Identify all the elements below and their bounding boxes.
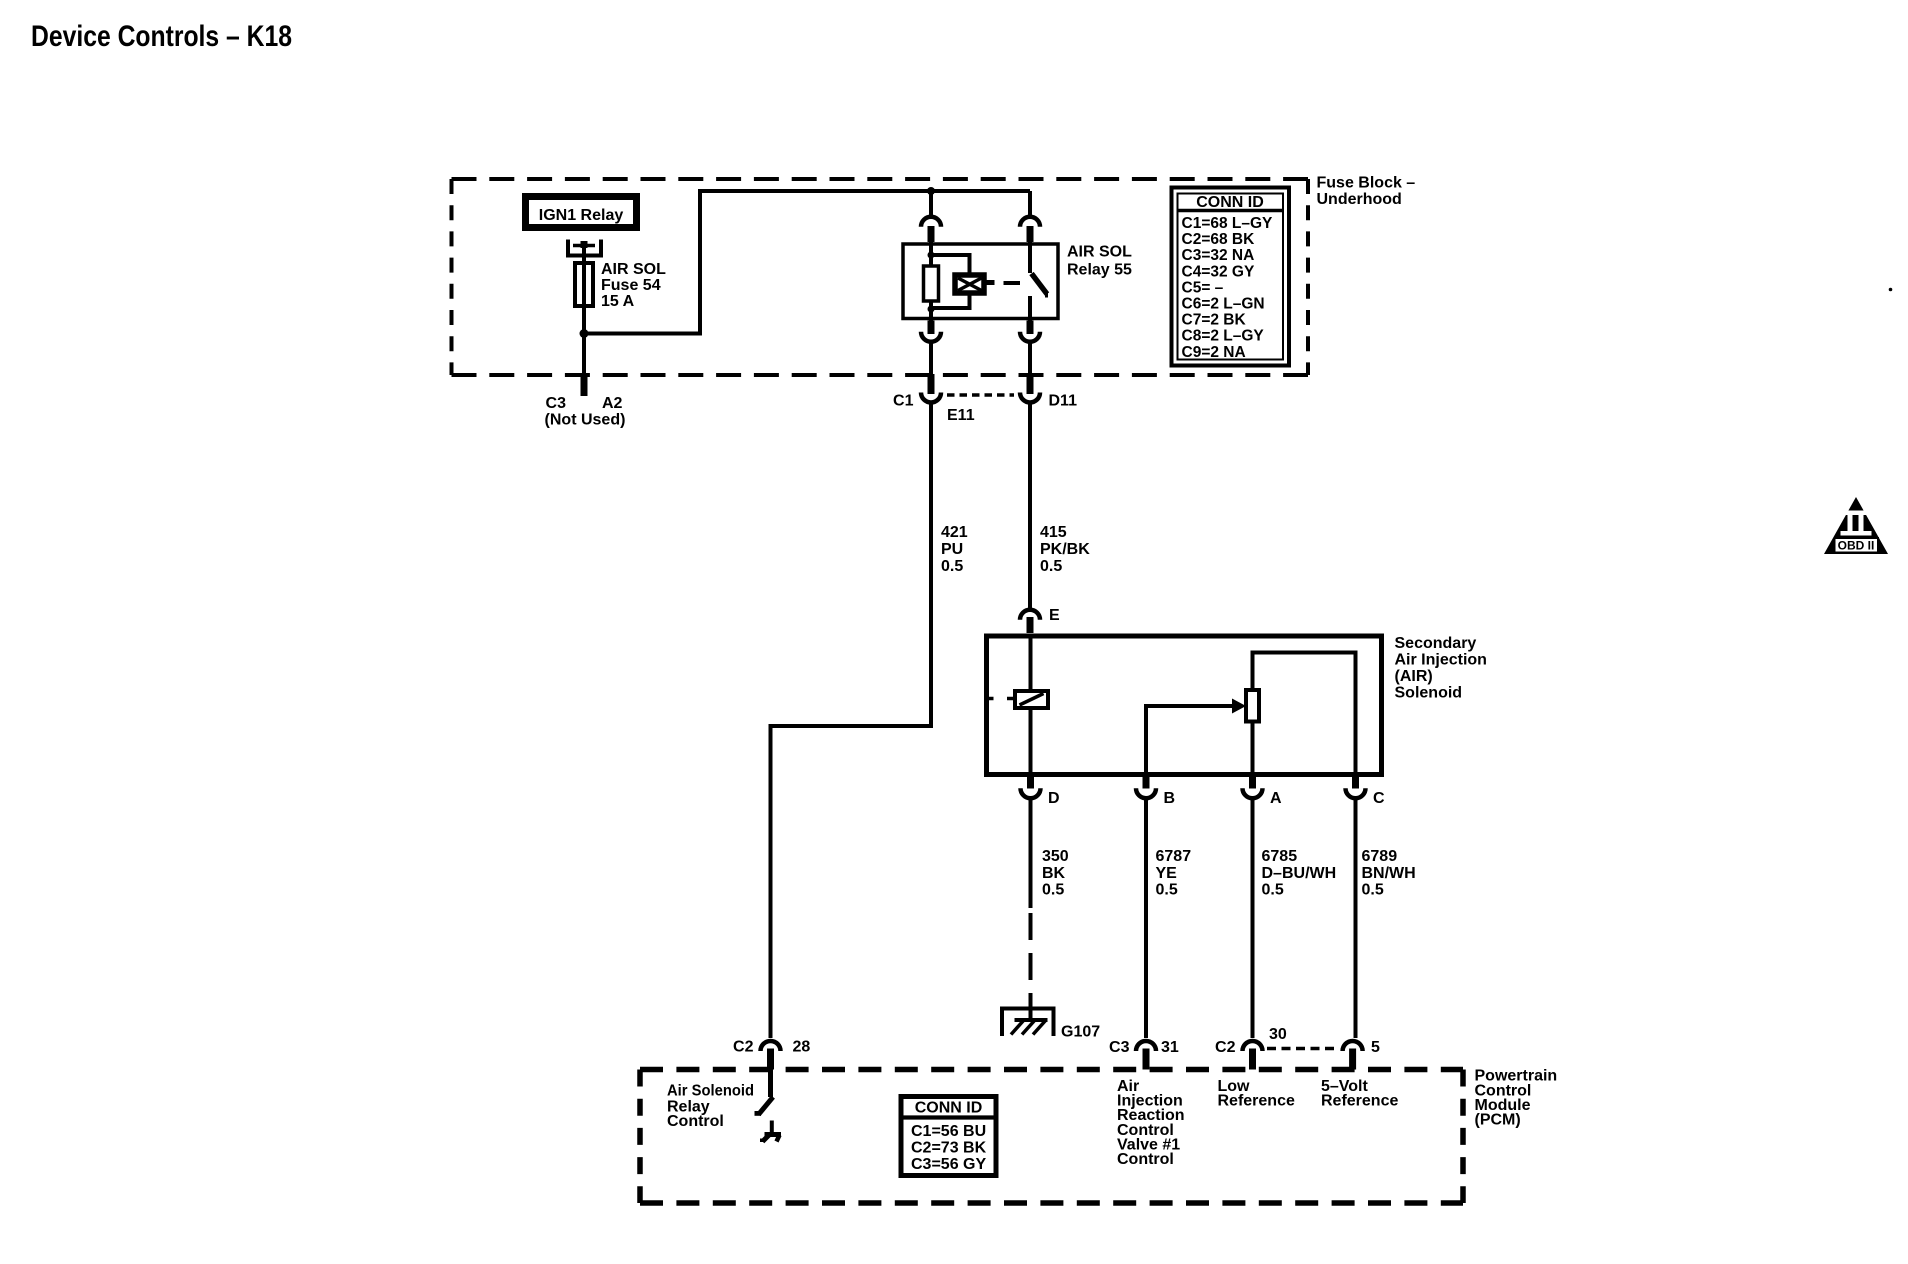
svg-text:Fuse Block –: Fuse Block – [1317,175,1416,192]
label: C2 (pin 28) [733,1039,754,1056]
svg-text:0.5: 0.5 [1362,882,1384,899]
actuator dashed link [1004,281,1021,285]
wire: sensor bottom to pin A [1251,722,1255,778]
relay switch blade [1032,274,1048,298]
svg-text:C7=2 BK: C7=2 BK [1182,312,1247,329]
svg-text:421: 421 [941,524,968,541]
label: E [1049,607,1060,624]
svg-text:A: A [1270,790,1282,807]
svg-text:Reference: Reference [1321,1093,1398,1110]
label: A2 [602,395,623,412]
svg-text:6787: 6787 [1156,848,1192,865]
label: Powertrain Control Module (PCM) [1475,1068,1558,1129]
svg-text:5: 5 [1371,1039,1380,1056]
wire stub into ground [1029,1007,1033,1020]
svg-text:Secondary: Secondary [1395,635,1477,652]
svg-text:BN/WH: BN/WH [1362,865,1416,882]
svg-text:Control: Control [667,1113,724,1130]
svg-text:0.5: 0.5 [1042,882,1064,899]
connector arc PCM C3 pin 31 [1136,1041,1156,1051]
svg-text:(Not Used): (Not Used) [545,412,626,429]
svg-text:415: 415 [1040,524,1067,541]
svg-text:AIR SOL: AIR SOL [1067,244,1132,261]
svg-text:D11: D11 [1049,393,1078,410]
svg-text:E11: E11 [947,407,975,424]
male pin PCM 31 [1143,1049,1150,1070]
solenoid valve element [1015,691,1048,708]
label: pin D [1048,790,1060,807]
svg-text:Reference: Reference [1218,1093,1295,1110]
label: Low Reference [1218,1078,1295,1110]
wire: coil branch top [931,255,970,273]
wire: drop to relay coil-side connector [929,191,933,217]
svg-text:C2: C2 [1215,1039,1236,1056]
label: (Not Used) [545,412,626,429]
wire 350 BK dashed run to ground [1029,913,1033,1007]
Powertrain Control Module dashed boundary box [640,1070,1463,1204]
svg-text:A2: A2 [602,395,623,412]
svg-text:C1=68 L–GY: C1=68 L–GY [1182,215,1274,232]
male pin PCM 5 [1349,1049,1356,1070]
label: 421 PU 0.5 [941,524,968,575]
svg-text:6789: 6789 [1362,848,1398,865]
svg-text:350: 350 [1042,848,1069,865]
relay switch: lower contact [1028,296,1032,321]
svg-text:C3=56 GY: C3=56 GY [911,1156,986,1173]
svg-text:(PCM): (PCM) [1475,1112,1521,1129]
coil actuator stub [986,280,995,285]
svg-text:C3=32 NA: C3=32 NA [1182,247,1255,264]
svg-text:PK/BK: PK/BK [1040,541,1090,558]
svg-text:C1: C1 [893,393,914,410]
connector arc below relay (right) [1020,332,1040,342]
connector arc PCM C2 pin 28 [761,1041,781,1051]
fuse holder bracket [568,240,601,256]
svg-text:6785: 6785 [1262,848,1298,865]
wire 350 BK: pin D down (solid part) [1029,798,1033,908]
wire 415 PK/BK: D11 down to E [1028,402,1032,608]
PCM driver wire [768,1070,773,1098]
wire 6787 YE: pin B to PCM C3-31 [1144,798,1148,1038]
connector E arc [1020,610,1040,620]
solenoid pin C male pin [1352,777,1359,789]
ground hatch 1 [1011,1020,1024,1035]
label: C2 (pin 30) [1215,1039,1236,1056]
label: 5-Volt Reference [1321,1078,1398,1110]
ground hatch 3 [1033,1020,1046,1035]
label: 31 [1161,1039,1179,1056]
fuse terminal bar with tap [573,241,595,248]
label: E11 [947,407,975,424]
svg-text:28: 28 [793,1039,811,1056]
label: 415 PK/BK 0.5 [1040,524,1090,575]
label: pin C [1373,790,1385,807]
valve mechanical dashed link [987,697,1016,701]
wire: coil branch bottom [931,294,970,308]
male pin PCM 28 [767,1049,774,1070]
label: AIR SOL Fuse 54 15 A [601,261,666,310]
svg-text:CONN ID: CONN ID [1196,194,1264,211]
wire 6785 D-BU/WH: pin A to PCM C2-30 [1251,798,1255,1038]
relay switch: fixed contact top [1028,242,1032,273]
svg-text:C9=2 NA: C9=2 NA [1182,344,1246,361]
solenoid pin B male pin [1143,777,1150,789]
svg-text:0.5: 0.5 [1040,558,1062,575]
wire: valve to pin D [1029,708,1033,777]
label: 6789 BN/WH 0.5 [1362,848,1416,899]
label: Air Solenoid Relay Control [667,1082,754,1130]
connector C1 arc [921,392,941,402]
svg-text:IGN1 Relay: IGN1 Relay [539,207,624,224]
svg-text:CONN ID: CONN ID [915,1099,983,1116]
svg-text:C6=2 L–GN: C6=2 L–GN [1182,296,1265,313]
wire: IGN1 relay terminal through fuse to junction [582,245,586,334]
label: 6787 YE 0.5 [1156,848,1192,899]
wire: relay right pin to fuse block edge [1028,342,1032,375]
male pin from relay pin C1-side [928,321,935,335]
label: Air Injection Reaction Control Valve #1 Control [1117,1078,1185,1168]
connector arc: relay switch feed [1020,217,1040,227]
label: AIR SOL Relay 55 [1067,244,1132,279]
svg-text:C2=73 BK: C2=73 BK [911,1140,987,1157]
connector arc PCM C2 pin 30 [1243,1041,1263,1051]
wire: pin E to valve [1029,636,1033,691]
solenoid pin A male pin [1249,777,1256,789]
connector E11 dashed tie [947,393,1014,397]
solenoid pin D male pin [1027,777,1034,789]
svg-text:Relay 55: Relay 55 [1067,262,1132,279]
PCM driver contact mark [760,1135,781,1143]
svg-text:C1=56 BU: C1=56 BU [911,1123,986,1140]
PCM driver switch blade [755,1097,774,1116]
svg-text:PU: PU [941,541,963,558]
label: 6785 D-BU/WH 0.5 [1262,848,1337,899]
connector arc solenoid pin D [1021,788,1041,798]
label: Secondary Air Injection (AIR) Solenoid [1395,635,1487,702]
wire: relay left pin inside [929,242,933,321]
svg-text:Control: Control [1117,1151,1174,1168]
fuse block underhood dashed boundary box [452,179,1309,375]
CONN ID table (fuse block underhood) [1172,188,1290,366]
svg-text:Fuse 54: Fuse 54 [601,277,661,294]
label: 5 [1371,1039,1380,1056]
junction node at fuse output [580,329,589,338]
svg-text:(AIR): (AIR) [1395,668,1433,685]
ground bar [1015,1018,1048,1022]
CONN ID table (PCM) [901,1097,996,1176]
wire: fuse to C3 stub [582,334,586,375]
svg-text:AIR SOL: AIR SOL [601,261,666,278]
junction dot relay coil top [928,252,935,259]
svg-text:0.5: 0.5 [941,558,963,575]
Secondary Air Injection (AIR) Solenoid outline [987,636,1382,775]
svg-text:15 A: 15 A [601,293,635,310]
resistor (relay suppression) [924,266,939,301]
male pin into relay coil feed [928,226,935,242]
svg-text:B: B [1164,790,1176,807]
wiper arrowhead [1232,699,1246,714]
svg-text:D–BU/WH: D–BU/WH [1262,865,1337,882]
junction dot above relay coil pin [927,187,935,195]
wire: drop to relay switch-side connector [1028,191,1032,217]
wire 6789 BN/WH: pin C to PCM 5 [1354,798,1358,1038]
svg-text:31: 31 [1161,1039,1179,1056]
male pin C3/A2 (not used) [581,374,588,396]
svg-text:C4=32 GY: C4=32 GY [1182,263,1255,280]
connector arc below relay (left) [921,332,941,342]
title: Device Controls - K18 [31,20,292,53]
svg-text:E: E [1049,607,1060,624]
relay coil (boxed X) [955,275,984,293]
svg-text:0.5: 0.5 [1262,882,1284,899]
ground shield bracket [1002,1009,1054,1037]
svg-text:0.5: 0.5 [1156,882,1178,899]
svg-text:Solenoid: Solenoid [1395,685,1463,702]
male pin into relay switch feed [1027,226,1034,242]
label: C1 [893,393,914,410]
wire: relay left pin to fuse block edge [929,342,933,375]
male pin from relay pin D11-side [1027,321,1034,335]
connector arc PCM pin 5 [1343,1041,1363,1051]
label: C3 (pin 31) [1109,1039,1130,1056]
wiper wire from pin B [1146,706,1233,777]
svg-text:C2: C2 [733,1039,754,1056]
PCM driver lower contact stub [770,1121,774,1134]
svg-text:C8=2 L–GY: C8=2 L–GY [1182,328,1265,345]
svg-text:C2=68 BK: C2=68 BK [1182,231,1256,248]
svg-text:Underhood: Underhood [1317,191,1402,208]
svg-text:C5= –: C5= – [1182,279,1224,296]
svg-text:30: 30 [1269,1026,1287,1043]
svg-text:C: C [1373,790,1385,807]
label: C3 [546,395,567,412]
OBD II compliance triangle symbol [1824,497,1888,554]
connector arc solenoid pin A [1243,788,1263,798]
connector arc solenoid pin C [1346,788,1366,798]
connector tie dashed C2-30 to 5 [1267,1047,1338,1051]
label: 350 BK 0.5 [1042,848,1069,899]
connector arc: relay coil feed [921,217,941,227]
position sensor resistive element [1246,690,1259,722]
wire: junction right/up/over to relay pins [584,191,1030,334]
svg-text:BK: BK [1042,865,1066,882]
svg-text:D: D [1048,790,1060,807]
stray printed dot [1889,288,1893,292]
connector D11 arc [1020,392,1040,402]
connector arc solenoid pin B [1136,788,1156,798]
label: 28 [793,1039,811,1056]
male pin into C1 [928,374,935,394]
svg-text:G107: G107 [1061,1024,1100,1041]
ground hatch 2 [1022,1020,1035,1035]
label: Fuse Block - Underhood [1317,175,1416,209]
male pin into D11 [1027,374,1034,394]
svg-text:Air Solenoid: Air Solenoid [667,1082,754,1099]
male pin into AIR solenoid pin E [1027,617,1034,633]
svg-text:C3: C3 [1109,1039,1130,1056]
svg-text:C3: C3 [546,395,567,412]
svg-text:Device Controls – K18: Device Controls – K18 [31,20,292,53]
IGN1 Relay label box [526,197,637,228]
wire 421 PU: C1 down, over, down to PCM [771,402,932,1038]
svg-text:OBD II: OBD II [1838,539,1875,553]
label: pin A [1270,790,1282,807]
label: D11 [1049,393,1078,410]
fuse F54 AIR SOL 15A body [575,263,593,306]
label: pin B [1164,790,1176,807]
svg-text:YE: YE [1156,865,1178,882]
junction dot relay coil bottom [928,306,935,313]
wire: sensor top to pin C side [1253,653,1356,778]
label: 30 [1269,1026,1287,1043]
svg-text:Air Injection: Air Injection [1395,652,1487,669]
male pin PCM 30 [1249,1049,1256,1070]
label: G107 [1061,1024,1100,1041]
relay K: AIR SOL Relay 55 outline [903,244,1058,319]
